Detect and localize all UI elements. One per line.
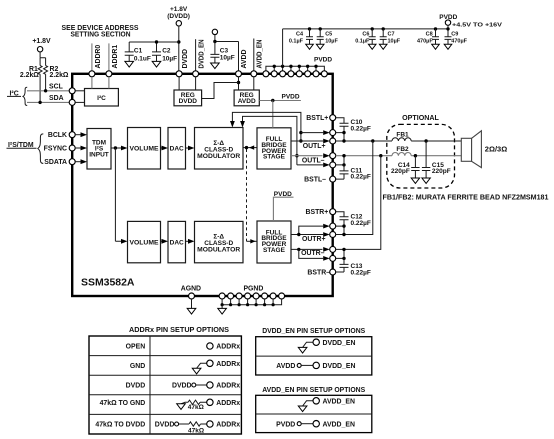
Full bridge power stage L: [257, 128, 291, 169]
pin BSTL-: [304, 176, 336, 184]
IC U1 SSM3582A outline: [72, 74, 333, 296]
capacitor C3 10uF: [210, 42, 234, 69]
svg-text:DVDD: DVDD: [182, 49, 189, 69]
pin BSTR+: [306, 209, 336, 217]
svg-text:BSTL+: BSTL+: [306, 115, 328, 122]
svg-text:DVDD: DVDD: [179, 98, 198, 105]
capacitor C1 0.1uF: [125, 42, 151, 67]
svg-text:DVDD: DVDD: [155, 422, 175, 429]
terminal PVDD +4.5V to +16V: [439, 14, 502, 28]
pin ADDR0: [89, 71, 95, 89]
svg-text:OPEN: OPEN: [126, 344, 146, 351]
capacitor C14 220pF: [391, 156, 420, 184]
VOLUME block R: [128, 221, 161, 262]
node OUTL- external: [336, 154, 392, 167]
note: see device address setting section: [62, 25, 139, 38]
table row DVDD: [126, 382, 241, 390]
svg-text:0.22µF: 0.22µF: [351, 269, 371, 276]
svg-text:0.22µF: 0.22µF: [351, 220, 371, 227]
svg-text:10µF: 10µF: [220, 55, 235, 62]
pin SDATA: [44, 159, 87, 167]
pin ADDR1: [106, 71, 112, 89]
pin BCLK: [48, 132, 87, 140]
svg-text:C5: C5: [325, 32, 332, 38]
svg-text:+1.8V: +1.8V: [32, 38, 51, 45]
svg-text:0.1uF: 0.1uF: [134, 55, 151, 62]
table row GND: [130, 360, 240, 374]
svg-text:BSTL–: BSTL–: [304, 177, 326, 184]
table row OPEN: [126, 343, 241, 351]
pins OUTL+: [303, 130, 336, 150]
svg-text:0.1µF: 0.1µF: [289, 39, 304, 45]
svg-text:SDATA: SDATA: [44, 159, 67, 166]
capacitor C15 220pF: [422, 141, 451, 183]
pin SCL: [69, 88, 84, 94]
svg-text:+1.8V: +1.8V: [170, 6, 188, 13]
svg-text:BCLK: BCLK: [48, 132, 67, 139]
pin AGND with ground: [181, 286, 201, 314]
svg-text:C7: C7: [388, 32, 395, 38]
terminal for C3 / AVDD: [212, 29, 238, 71]
wire DAC R to modulator R: [186, 239, 195, 244]
table row 47k to GND: [100, 399, 241, 411]
svg-text:VOLUME: VOLUME: [130, 239, 160, 246]
wire OUTL+ pin1: [301, 130, 330, 135]
svg-text:10µF: 10µF: [162, 55, 177, 62]
svg-text:ADDRx: ADDRx: [216, 361, 240, 368]
TDM I2S INPUT block: [87, 129, 111, 170]
svg-text:STAGE: STAGE: [263, 247, 286, 254]
svg-text:C3: C3: [220, 48, 229, 55]
svg-text:DAC: DAC: [170, 239, 184, 246]
svg-text:BSTR–: BSTR–: [307, 269, 330, 276]
resistor R2 2.2k: [44, 58, 69, 91]
REG DVDD block: [174, 90, 202, 106]
svg-text:AVDD_EN: AVDD_EN: [323, 421, 355, 428]
optional filter dashed box: [387, 115, 455, 188]
capacitor C4 0.1uF: [289, 27, 313, 49]
table ADDRx pin setup options: [89, 327, 241, 434]
supply +1.8V (pull-ups): [32, 38, 51, 58]
pin BSTL+: [306, 115, 335, 123]
svg-text:220pF: 220pF: [432, 168, 451, 175]
svg-text:ADDR1: ADDR1: [112, 45, 119, 69]
capacitor C12 0.22uF: [336, 212, 371, 227]
svg-text:OUTR–: OUTR–: [301, 250, 325, 257]
svg-text:OUTL–: OUTL–: [302, 158, 325, 165]
I2C block: [85, 89, 119, 107]
capacitor C10 0.22uF: [336, 118, 371, 133]
svg-text:AVDD: AVDD: [276, 363, 295, 370]
wire OUTL- pin2: [297, 163, 330, 168]
dashed feedback wire to power stage R: [247, 149, 258, 244]
wire VOLUME L to DAC L: [161, 146, 169, 151]
table AVDD_EN pin setup options: [256, 387, 372, 432]
svg-text:MODULATOR: MODULATOR: [197, 153, 240, 160]
table row GND to DVDD_EN: [298, 339, 355, 353]
svg-text:AVDD_EN PIN SETUP OPTIONS: AVDD_EN PIN SETUP OPTIONS: [262, 387, 365, 394]
wire OUTL+ pin2 (from power stage): [291, 139, 330, 144]
svg-text:AGND: AGND: [181, 286, 201, 293]
pin SDA: [69, 99, 84, 105]
svg-text:SSM3582A: SSM3582A: [81, 278, 135, 289]
svg-text:GND: GND: [130, 363, 145, 370]
svg-text:ADDR0: ADDR0: [95, 45, 102, 69]
capacitor C2 10uF: [152, 40, 177, 67]
wire DAC L to modulator L: [186, 146, 195, 151]
svg-text:PVDD: PVDD: [274, 191, 292, 198]
capacitor C13 0.22uF: [336, 258, 371, 276]
capacitor C5 10uF: [316, 27, 338, 49]
svg-text:PGND: PGND: [243, 286, 263, 293]
svg-text:2Ω/3Ω: 2Ω/3Ω: [485, 147, 508, 154]
svg-text:AVDD_EN: AVDD_EN: [257, 39, 264, 68]
svg-text:FSYNC: FSYNC: [44, 146, 67, 153]
ADDR0 stub: [92, 43, 102, 70]
capacitor C9 470uF: [444, 25, 467, 49]
svg-text:DVDD: DVDD: [172, 383, 192, 390]
svg-text:INPUT: INPUT: [89, 151, 109, 158]
DAC block L: [168, 128, 186, 170]
svg-text:VOLUME: VOLUME: [130, 146, 160, 153]
pins OUTR-: [301, 246, 336, 261]
svg-text:0.1µF: 0.1µF: [355, 39, 370, 45]
svg-text:+4.5V TO +16V: +4.5V TO +16V: [452, 23, 502, 29]
wire branch to VOLUME R: [115, 148, 127, 244]
svg-text:SCL: SCL: [49, 84, 63, 91]
node OUTR- external joins OUTL-: [336, 156, 381, 260]
feedback tap OUTL- to modulator L: [240, 116, 298, 164]
svg-text:47kΩ: 47kΩ: [188, 427, 204, 434]
pin BSTR-: [307, 269, 335, 276]
svg-text:220pF: 220pF: [391, 168, 410, 175]
pins PGND x8 with bus and ground: [218, 286, 285, 314]
wire REG DVDD output to AVDD node: [202, 83, 239, 99]
feedback tap OUTL+ to modulator L: [230, 112, 303, 142]
svg-text:C1: C1: [134, 47, 143, 54]
table row AVDD to DVDD_EN: [276, 362, 355, 370]
pin DVDD: [176, 49, 189, 90]
pin DVDD_EN with stub: [193, 39, 206, 90]
table row 47k to DVDD: [95, 421, 240, 435]
wire DVDD decoupling rail: [129, 41, 179, 43]
supply +1.8V (DVDD): [167, 6, 190, 71]
svg-text:470µF: 470µF: [417, 39, 433, 45]
svg-text:OUTL+: OUTL+: [303, 143, 326, 150]
svg-text:ADDRx PIN SETUP OPTIONS: ADDRx PIN SETUP OPTIONS: [129, 327, 229, 334]
pins PVDD x8: [263, 71, 327, 77]
svg-text:OUTR+: OUTR+: [302, 236, 326, 243]
DAC block R: [168, 221, 186, 262]
svg-text:AVDD_EN: AVDD_EN: [323, 398, 355, 405]
svg-text:DVDD_EN PIN SETUP OPTIONS: DVDD_EN PIN SETUP OPTIONS: [262, 328, 365, 335]
svg-text:AVDD: AVDD: [241, 49, 248, 68]
svg-text:ADDRx: ADDRx: [216, 400, 240, 407]
table row GND to AVDD_EN: [298, 398, 355, 412]
table row PVDD to AVDD_EN: [276, 421, 355, 429]
svg-text:SDA: SDA: [49, 95, 64, 102]
ADDR1 stub: [109, 43, 119, 70]
pins OUTL-: [302, 153, 336, 168]
svg-text:C8: C8: [426, 32, 433, 38]
pin AVDD: [236, 49, 249, 90]
svg-text:I²C: I²C: [97, 95, 106, 102]
wire OUTL- pin1 (from power stage): [291, 153, 330, 158]
wire feedback into modulator L (from power stage node): [243, 145, 257, 149]
svg-text:SETTING SECTION: SETTING SECTION: [71, 31, 131, 38]
wire SDA: [27, 95, 69, 104]
wire OUTR+ pin1: [299, 224, 330, 235]
REG AVDD block: [234, 90, 259, 106]
wire OUTR+ pin2 (from power stage): [291, 232, 330, 237]
svg-text:DVDD_EN: DVDD_EN: [323, 340, 356, 347]
node OUTR+ external joins OUTL+: [336, 141, 373, 236]
capacitor C8 470uF: [417, 27, 439, 49]
speaker 2ohm/3ohm: [461, 131, 507, 168]
svg-text:C2: C2: [162, 47, 171, 54]
Sigma-Delta Class-D modulator R: [195, 221, 244, 262]
Full bridge power stage R: [257, 221, 291, 263]
svg-text:470µF: 470µF: [451, 39, 467, 45]
svg-text:ADDRx: ADDRx: [216, 422, 240, 429]
svg-text:C9: C9: [451, 32, 458, 38]
svg-text:ADDRx: ADDRx: [216, 344, 240, 351]
VOLUME block L: [128, 128, 161, 170]
svg-text:DAC: DAC: [170, 146, 184, 153]
svg-text:BSTR+: BSTR+: [306, 209, 329, 216]
note FB1/FB2 murata: [383, 195, 549, 202]
svg-text:DVDD: DVDD: [126, 383, 146, 390]
capacitor C6 0.1uF: [355, 27, 376, 49]
svg-text:DVDD_EN: DVDD_EN: [323, 363, 356, 370]
wire TDM to VOLUME L: [111, 146, 128, 151]
svg-text:(DVDD): (DVDD): [167, 13, 190, 20]
svg-text:10µF: 10µF: [325, 39, 338, 45]
ferrite bead FB1: [392, 132, 461, 143]
svg-text:C6: C6: [362, 32, 369, 38]
svg-text:OPTIONAL: OPTIONAL: [402, 115, 439, 122]
svg-text:PVDD: PVDD: [282, 94, 300, 101]
svg-text:C4: C4: [296, 32, 304, 38]
wire OUTR- pin2: [299, 249, 330, 260]
pins OUTR+: [302, 223, 336, 243]
resistor R1 2.2k: [20, 58, 42, 103]
svg-text:2.2kΩ: 2.2kΩ: [20, 72, 39, 79]
ferrite bead FB2: [392, 146, 461, 157]
svg-text:47kΩ TO DVDD: 47kΩ TO DVDD: [95, 422, 145, 429]
svg-text:PVDD: PVDD: [314, 57, 332, 64]
svg-text:2.2kΩ: 2.2kΩ: [50, 72, 69, 79]
pin AVDD_EN with stub: [251, 39, 264, 91]
svg-text:STAGE: STAGE: [263, 154, 286, 161]
wire PVDD rail feed: [283, 29, 448, 66]
svg-text:ADDRx: ADDRx: [216, 383, 240, 390]
Sigma-Delta Class-D modulator L: [195, 128, 244, 170]
svg-text:PVDD: PVDD: [276, 421, 295, 428]
wire internal PVDD (top): [259, 94, 301, 128]
I2S/TDM label and brace: [7, 134, 44, 164]
wire internal PVDD (bottom): [273, 191, 293, 221]
svg-text:47kΩ: 47kΩ: [188, 404, 204, 411]
pin FSYNC: [44, 145, 87, 153]
wire SCL: [27, 84, 69, 93]
svg-text:47kΩ TO GND: 47kΩ TO GND: [100, 400, 146, 407]
svg-text:AVDD: AVDD: [238, 98, 256, 105]
svg-text:0.22µF: 0.22µF: [351, 174, 371, 181]
capacitor C7 10uF: [379, 27, 400, 49]
node OUTL+ external: [336, 131, 392, 143]
wire VOLUME R to DAC R: [161, 239, 169, 244]
svg-text:0.22µF: 0.22µF: [351, 125, 371, 132]
table DVDD_EN pin setup options: [256, 328, 372, 375]
svg-text:FB1/FB2: MURATA FERRITE BEAD N: FB1/FB2: MURATA FERRITE BEAD NFZ2MSM181: [383, 195, 549, 202]
svg-text:DVDD_EN: DVDD_EN: [198, 39, 205, 68]
capacitor C11 0.22uF: [336, 165, 371, 181]
wire OUTR- pin1 (from power stage): [291, 247, 330, 252]
PVDD pin bus: [266, 57, 332, 74]
I2C bus label and brace: [7, 87, 27, 105]
svg-text:10µF: 10µF: [388, 39, 401, 45]
svg-text:MODULATOR: MODULATOR: [197, 247, 240, 254]
